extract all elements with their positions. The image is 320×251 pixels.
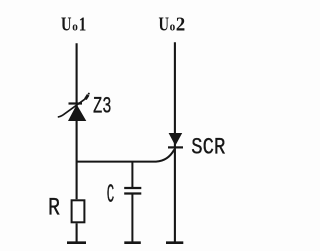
- resistor R: [72, 200, 85, 222]
- svg-text:Z3: Z3: [93, 94, 112, 120]
- svg-text:2: 2: [176, 14, 186, 36]
- ground below SCR: [166, 241, 183, 244]
- svg-text:C: C: [107, 180, 115, 210]
- net label Uo2: [159, 14, 186, 36]
- svg-text:o: o: [72, 19, 78, 34]
- svg-text:1: 1: [79, 14, 87, 36]
- svg-text:SCR: SCR: [191, 135, 225, 161]
- svg-text:o: o: [170, 19, 176, 34]
- zener diode Z3: [58, 93, 90, 121]
- thyristor SCR: [168, 133, 183, 147]
- svg-text:R: R: [48, 194, 60, 223]
- wire: Uo1 vertical line (top to resistor): [76, 43, 78, 199]
- ground below C: [124, 241, 141, 244]
- svg-text:U: U: [159, 14, 170, 36]
- ground below R: [67, 241, 86, 244]
- svg-text:U: U: [61, 14, 72, 36]
- wire: Uo2 vertical line: [174, 42, 176, 241]
- wire: resistor to ground: [76, 223, 78, 241]
- capacitor C: [124, 162, 141, 242]
- wire: node A horizontal to SCR gate: [77, 150, 175, 162]
- net label Uo1: [61, 14, 86, 36]
